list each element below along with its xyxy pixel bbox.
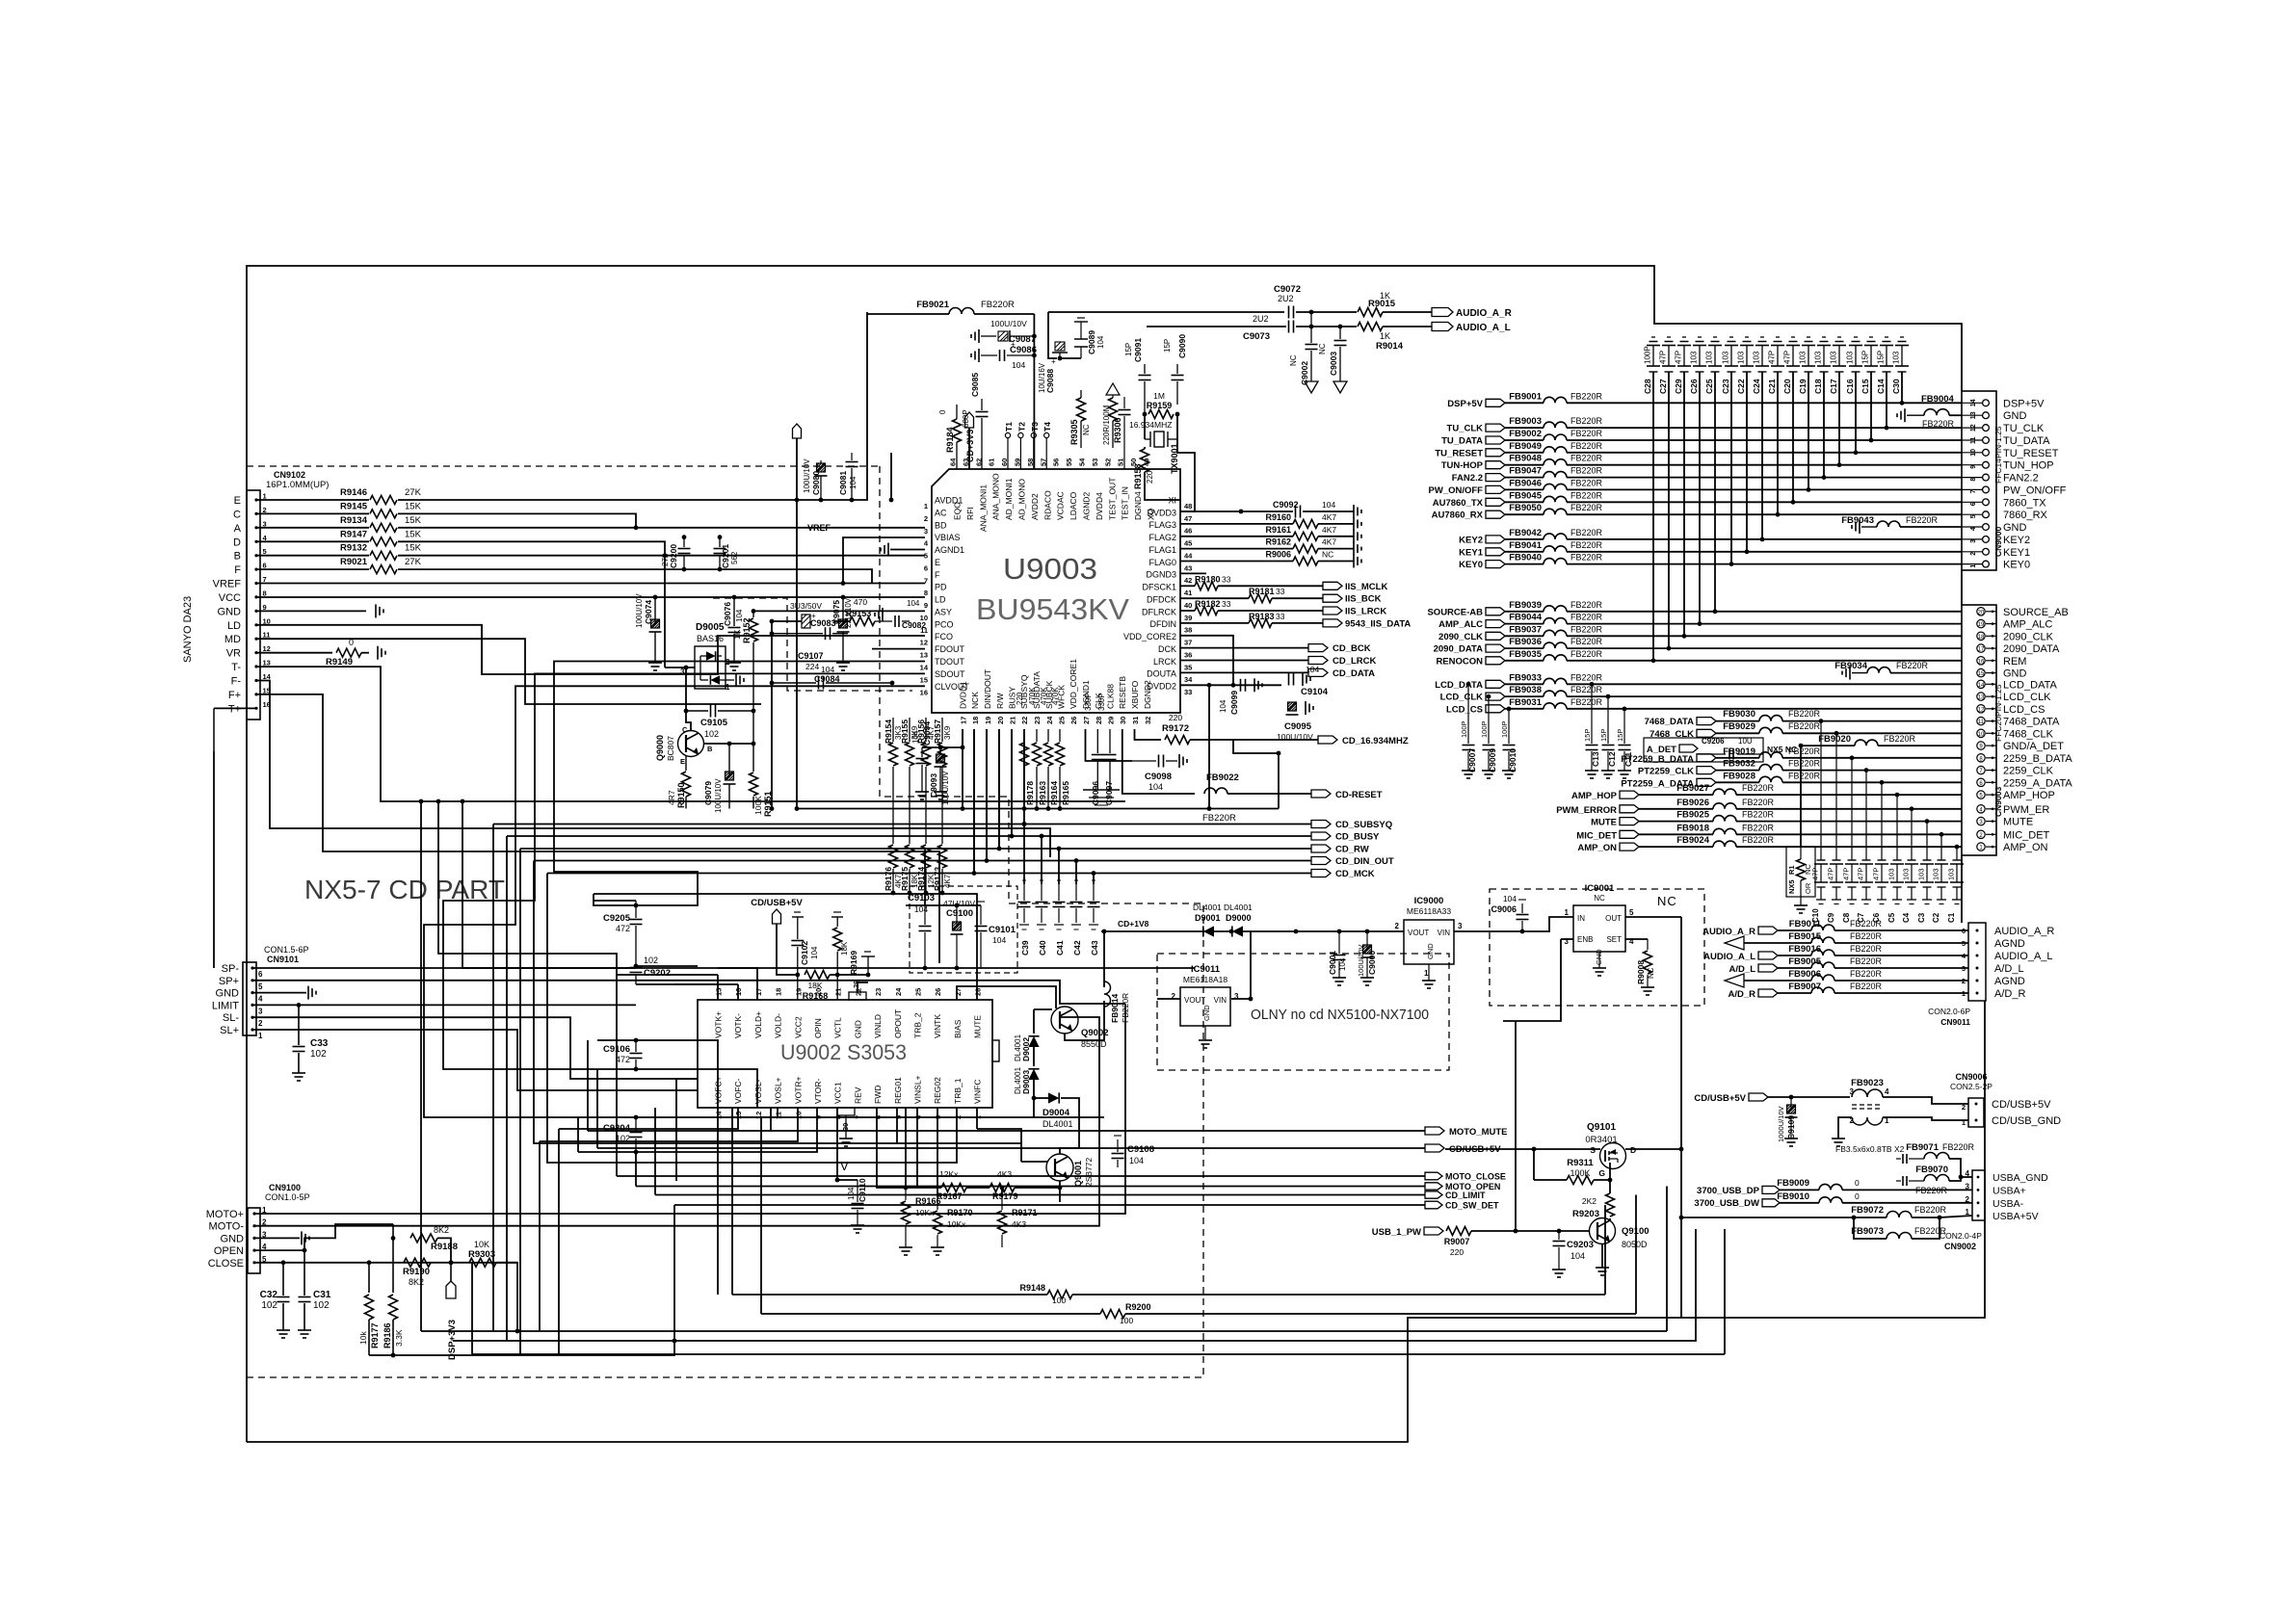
svg-text:C19: C19 bbox=[1798, 379, 1808, 394]
wire LIMIT bbox=[252, 1004, 636, 1006]
wire bbox=[761, 1313, 1100, 1315]
wire bbox=[1272, 622, 1323, 624]
svg-text:FB220R: FB220R bbox=[1570, 490, 1603, 500]
svg-text:33: 33 bbox=[1276, 612, 1285, 621]
svg-text:C13: C13 bbox=[1591, 751, 1600, 767]
wire IC9000 VIN bbox=[1454, 930, 1522, 932]
wire CD_DIN_OUT bbox=[987, 729, 1311, 861]
inductor FB9073 FB220R bbox=[1851, 1226, 1946, 1239]
svg-text:GND: GND bbox=[221, 1233, 245, 1244]
svg-text:47P: 47P bbox=[1842, 868, 1851, 880]
wire LD bbox=[256, 625, 925, 674]
connector CN9102 16P1.0MM(UP) bbox=[213, 470, 330, 720]
svg-text:100U/10V: 100U/10V bbox=[714, 778, 723, 813]
resistor R9162 4K7 bbox=[1265, 537, 1336, 554]
svg-text:MOTO+: MOTO+ bbox=[206, 1209, 244, 1220]
wire bbox=[1883, 1117, 1968, 1120]
svg-text:15P: 15P bbox=[1616, 729, 1624, 742]
wire bbox=[1015, 1187, 1060, 1189]
svg-text:TU_CLK: TU_CLK bbox=[1447, 424, 1484, 434]
svg-text:3: 3 bbox=[924, 527, 928, 536]
wire IC9001 IN bbox=[1522, 917, 1573, 931]
svg-text:DIN/DOUT: DIN/DOUT bbox=[983, 669, 992, 709]
svg-text:104: 104 bbox=[911, 730, 920, 744]
svg-text:104: 104 bbox=[1096, 335, 1105, 349]
svg-text:R9183: R9183 bbox=[1249, 612, 1275, 621]
svg-text:FB9009: FB9009 bbox=[1777, 1178, 1809, 1189]
svg-text:C3: C3 bbox=[1917, 912, 1926, 923]
svg-text:35: 35 bbox=[1184, 663, 1192, 671]
wire bbox=[1716, 720, 1759, 722]
svg-text:CD-RESET: CD-RESET bbox=[1335, 790, 1383, 800]
svg-text:VDD_CORE1: VDD_CORE1 bbox=[1069, 659, 1078, 709]
svg-text:1: 1 bbox=[1424, 969, 1429, 978]
svg-text:103: 103 bbox=[1690, 351, 1699, 364]
inductor FB9006 FB220R bbox=[1788, 969, 1882, 981]
stub CD_SW_DET bbox=[1425, 1201, 1499, 1211]
stub 7468_DATA bbox=[1645, 717, 1716, 727]
wire row DSP+5V bbox=[1567, 402, 1962, 404]
svg-text:C15: C15 bbox=[1861, 379, 1870, 394]
capacitor C19 103 bbox=[1798, 337, 1815, 394]
svg-text:100K: 100K bbox=[753, 796, 763, 815]
resistor R9179 4K3 bbox=[990, 1169, 1018, 1201]
resistor R9166 10Kx bbox=[899, 1188, 941, 1255]
svg-text:3: 3 bbox=[1458, 922, 1463, 930]
svg-text:FB220R: FB220R bbox=[1788, 771, 1821, 780]
svg-text:C9089: C9089 bbox=[1087, 330, 1096, 354]
svg-text:C25: C25 bbox=[1704, 379, 1714, 394]
capacitor C9076 104 bbox=[723, 597, 744, 670]
svg-text:FB9010: FB9010 bbox=[1777, 1191, 1809, 1202]
stub SOURCE-AB bbox=[1427, 607, 1505, 617]
svg-text:R9158: R9158 bbox=[1133, 463, 1143, 489]
svg-text:0: 0 bbox=[349, 638, 354, 647]
wire net A / AC bbox=[398, 527, 925, 529]
svg-text:FB9029: FB9029 bbox=[1723, 721, 1755, 732]
svg-text:R9190: R9190 bbox=[403, 1267, 430, 1277]
resistor R9006 NC bbox=[1265, 550, 1333, 566]
svg-text:R9200: R9200 bbox=[1125, 1302, 1151, 1312]
svg-text:DSP+3V3: DSP+3V3 bbox=[447, 1320, 458, 1360]
U9003 right pin names bbox=[1123, 496, 1193, 697]
svg-text:C9003: C9003 bbox=[1329, 352, 1338, 376]
wire SDOUT path bbox=[424, 686, 925, 1117]
stub AMP_ON bbox=[1577, 843, 1639, 853]
wire bbox=[578, 1108, 817, 1152]
svg-text:VR: VR bbox=[226, 648, 241, 660]
stub PT2259_CLK bbox=[1638, 767, 1716, 777]
svg-text:R9160: R9160 bbox=[1265, 512, 1291, 522]
inductor FB9044 FB220R bbox=[1509, 613, 1602, 624]
svg-text:18: 18 bbox=[1978, 635, 1985, 641]
wire pin18 col bbox=[973, 729, 975, 874]
wire b1 bbox=[462, 801, 636, 968]
svg-text:MUTE: MUTE bbox=[973, 1015, 983, 1038]
wire bbox=[777, 1116, 779, 1118]
svg-text:10K: 10K bbox=[474, 1240, 489, 1249]
transistor Q9000 BC807 bbox=[655, 725, 713, 766]
svg-text:8: 8 bbox=[263, 589, 267, 597]
svg-text:220: 220 bbox=[1169, 713, 1182, 722]
svg-text:AVDD2: AVDD2 bbox=[1030, 493, 1040, 520]
capacitor C4 103 bbox=[1902, 809, 1919, 923]
svg-text:GND/A_DET: GND/A_DET bbox=[2003, 741, 2064, 752]
svg-text:AMP_HOP: AMP_HOP bbox=[2003, 790, 2055, 801]
wire bbox=[1878, 745, 1962, 746]
svg-text:470: 470 bbox=[854, 597, 867, 607]
wire CD+3V3 column bbox=[796, 438, 798, 809]
svg-text:FB9014: FB9014 bbox=[1110, 993, 1120, 1023]
wire Q9100 emitter bbox=[1601, 1244, 1603, 1268]
stub DSP+5V bbox=[1447, 399, 1505, 409]
wire TRB1 bbox=[976, 1108, 978, 1129]
inductor FB9036 FB220R bbox=[1509, 637, 1602, 648]
wire ENB bbox=[1561, 938, 1573, 940]
svg-text:R9154: R9154 bbox=[884, 720, 893, 744]
capacitor C9009 100P bbox=[1480, 696, 1497, 778]
capacitor C42 bbox=[1070, 880, 1083, 955]
svg-text:2K2: 2K2 bbox=[1582, 1196, 1597, 1206]
wire to Q9001 bbox=[977, 1129, 1021, 1162]
inductor FB9050 FB220R bbox=[1509, 503, 1602, 514]
capacitor C9073 2U2 bbox=[1243, 314, 1294, 342]
stub RENOCON bbox=[1436, 656, 1505, 667]
wire bbox=[906, 904, 981, 906]
wire bbox=[1058, 849, 1060, 884]
inductor FB9045 FB220R bbox=[1509, 490, 1602, 502]
capacitor C9204 102 bbox=[603, 1117, 643, 1152]
svg-text:C9108: C9108 bbox=[1127, 1144, 1154, 1155]
svg-text:BD: BD bbox=[935, 520, 947, 530]
svg-text:8050D: 8050D bbox=[1622, 1240, 1648, 1249]
wire bbox=[1176, 414, 1178, 439]
stub IIS_LRCK bbox=[1323, 607, 1386, 617]
svg-text:OLNY no cd NX5100-NX7100: OLNY no cd NX5100-NX7100 bbox=[1251, 1007, 1429, 1023]
svg-text:14: 14 bbox=[920, 664, 929, 672]
svg-text:D9000: D9000 bbox=[1226, 913, 1252, 923]
svg-text:C9094: C9094 bbox=[922, 721, 932, 746]
svg-text:DL4001: DL4001 bbox=[1193, 903, 1222, 912]
dashed boundary top bbox=[247, 465, 880, 467]
wire cap C15 bbox=[1870, 372, 1872, 440]
inductor FB9019 FB220R bbox=[1723, 746, 1820, 758]
svg-text:103: 103 bbox=[1799, 351, 1808, 364]
svg-text:D: D bbox=[1630, 1145, 1636, 1155]
wire bbox=[1716, 781, 1759, 783]
capacitor C9001 104 bbox=[1328, 931, 1347, 985]
resistor R9172 220 bbox=[1162, 713, 1190, 745]
wire v568 bbox=[547, 874, 676, 1164]
wire row KEY0 bbox=[1567, 563, 1962, 565]
ground FB9023 bbox=[1832, 1138, 1845, 1139]
inductor FB9027 FB220R bbox=[1676, 783, 1774, 795]
inductor FB9007 FB220R bbox=[1788, 982, 1882, 993]
svg-text:36: 36 bbox=[1184, 650, 1192, 659]
resistor R9167 12Kx bbox=[937, 1169, 966, 1201]
svg-text:ME6118A33: ME6118A33 bbox=[1407, 906, 1451, 916]
op-amp U9003 BU9543KV DSP bbox=[932, 469, 1180, 713]
svg-text:5: 5 bbox=[924, 552, 928, 561]
svg-text:FB220R: FB220R bbox=[1570, 416, 1603, 426]
capacitor C43 bbox=[1088, 880, 1100, 955]
svg-text:FLAG1: FLAG1 bbox=[1148, 545, 1176, 555]
wire bbox=[1075, 861, 1077, 885]
svg-text:15: 15 bbox=[920, 675, 928, 684]
wire bbox=[1842, 1202, 1972, 1204]
wire bbox=[578, 1108, 778, 1117]
svg-text:100P: 100P bbox=[1460, 720, 1468, 738]
svg-text:C9091: C9091 bbox=[1133, 338, 1143, 362]
svg-text:12: 12 bbox=[920, 639, 928, 647]
wire Q9101 source row bbox=[1445, 1148, 1600, 1150]
inductor FB9004 FB220R bbox=[1897, 394, 1955, 429]
wire bbox=[890, 549, 925, 551]
svg-text:13: 13 bbox=[920, 651, 928, 660]
svg-text:FAN2.2: FAN2.2 bbox=[2003, 473, 2039, 484]
svg-text:R9168: R9168 bbox=[803, 991, 829, 1001]
svg-text:47P: 47P bbox=[1768, 351, 1777, 364]
svg-text:15K: 15K bbox=[405, 501, 422, 511]
wire bbox=[1780, 1202, 1819, 1204]
svg-text:10k: 10k bbox=[358, 1331, 368, 1345]
svg-text:FFC20PIN-1.25: FFC20PIN-1.25 bbox=[1993, 684, 2003, 742]
svg-text:DCK: DCK bbox=[1158, 644, 1176, 654]
svg-text:C9109: C9109 bbox=[1786, 1115, 1796, 1139]
svg-text:C41: C41 bbox=[1055, 940, 1065, 955]
svg-text:A/D_L: A/D_L bbox=[1994, 963, 2024, 975]
svg-text:R9153: R9153 bbox=[846, 609, 872, 618]
svg-text:R9177: R9177 bbox=[370, 1322, 380, 1348]
svg-text:470K: 470K bbox=[1028, 687, 1037, 705]
svg-text:AUDIO_A_L: AUDIO_A_L bbox=[1703, 952, 1755, 962]
wire bbox=[1716, 770, 1759, 772]
wire CD_RW bbox=[999, 729, 1311, 849]
svg-text:3: 3 bbox=[258, 1007, 263, 1015]
resistor R9190 8K2 bbox=[403, 1258, 431, 1287]
svg-text:FB9036: FB9036 bbox=[1509, 637, 1542, 647]
svg-text:1K: 1K bbox=[732, 629, 742, 640]
svg-text:VCC2: VCC2 bbox=[793, 1016, 803, 1038]
svg-text:6: 6 bbox=[258, 970, 263, 979]
svg-text:BAS16: BAS16 bbox=[697, 634, 724, 643]
wire v-cd_sw bbox=[1604, 1205, 1606, 1295]
stub CD_BUSY bbox=[1311, 832, 1380, 843]
svg-text:20: 20 bbox=[1978, 610, 1985, 615]
stub LCD_CS bbox=[1446, 704, 1505, 715]
wire pin22 col bbox=[1023, 729, 1025, 825]
svg-text:C4: C4 bbox=[1902, 912, 1911, 923]
svg-text:LIMIT: LIMIT bbox=[212, 1000, 239, 1011]
resistor R9169 18K bbox=[831, 912, 858, 1000]
svg-text:VTOR-: VTOR- bbox=[813, 1079, 823, 1104]
wire bbox=[636, 965, 698, 967]
svg-text:FB220R: FB220R bbox=[1884, 734, 1916, 744]
svg-text:CD_16.934MHZ: CD_16.934MHZ bbox=[1342, 736, 1409, 746]
wire bbox=[617, 974, 718, 976]
wire bbox=[917, 1187, 941, 1189]
wire bbox=[1231, 998, 1251, 1000]
svg-text:220: 220 bbox=[1016, 692, 1024, 705]
gnd arrow AGND bbox=[1725, 936, 1744, 950]
capacitor C9093 100U/10V bbox=[929, 747, 950, 805]
wire bottom R join bbox=[369, 1341, 674, 1355]
svg-text:2090_CLK: 2090_CLK bbox=[2003, 631, 2054, 642]
wire pin19 col bbox=[986, 729, 988, 861]
svg-text:104: 104 bbox=[1570, 1251, 1585, 1261]
svg-text:LD: LD bbox=[227, 620, 241, 632]
svg-text:R1: R1 bbox=[1787, 865, 1796, 875]
svg-text:Q9001: Q9001 bbox=[1073, 1161, 1083, 1187]
svg-text:FB9047: FB9047 bbox=[1509, 466, 1542, 477]
stub MOTO_OPEN bbox=[1425, 1182, 1500, 1191]
svg-text:RESETB: RESETB bbox=[1118, 676, 1127, 709]
svg-text:24: 24 bbox=[894, 987, 903, 996]
wire bbox=[635, 1152, 637, 1187]
wire v-moto_open bbox=[1666, 1187, 1668, 1332]
svg-text:R9145: R9145 bbox=[340, 501, 368, 511]
connector CN9011 CON2.0-6P bbox=[1928, 923, 2054, 1027]
wire bbox=[675, 1162, 677, 1164]
svg-text:1K: 1K bbox=[1380, 331, 1390, 341]
wire cap C19 bbox=[1808, 372, 1809, 489]
svg-text:FB220R: FB220R bbox=[1788, 709, 1821, 719]
svg-text:ENB: ENB bbox=[1577, 935, 1593, 944]
svg-text:3700_USB_DW: 3700_USB_DW bbox=[1694, 1198, 1759, 1209]
svg-text:SL-: SL- bbox=[223, 1012, 239, 1024]
capacitor C10 47P bbox=[1811, 721, 1829, 923]
svg-text:R9007: R9007 bbox=[1444, 1237, 1470, 1246]
svg-text:GND: GND bbox=[218, 606, 242, 617]
svg-text:15: 15 bbox=[715, 988, 724, 996]
svg-text:FB9030: FB9030 bbox=[1723, 709, 1755, 720]
svg-text:470K: 470K bbox=[1040, 687, 1048, 705]
wire bbox=[1041, 836, 1042, 884]
svg-text:CON2.0-6P: CON2.0-6P bbox=[1928, 1007, 1970, 1016]
ground AGND1 bbox=[881, 543, 888, 557]
svg-text:VOTR+: VOTR+ bbox=[793, 1076, 803, 1104]
svg-text:100U/10V: 100U/10V bbox=[941, 771, 950, 805]
svg-text:TDOUT: TDOUT bbox=[935, 657, 964, 667]
svg-text:FB220R: FB220R bbox=[1570, 624, 1603, 634]
svg-text:LCD_CLK: LCD_CLK bbox=[2003, 692, 2051, 703]
capacitor C9082 104 bbox=[875, 599, 926, 630]
svg-text:15P: 15P bbox=[1877, 351, 1886, 364]
stub PT2259_A_DATA bbox=[1621, 778, 1716, 789]
svg-text:AGND1: AGND1 bbox=[935, 545, 964, 555]
capacitor C12 15P bbox=[1599, 696, 1617, 778]
svg-text:11: 11 bbox=[1978, 720, 1985, 725]
svg-text:100P: 100P bbox=[1480, 720, 1489, 738]
wire bbox=[1949, 1177, 1961, 1181]
svg-text:VINTK: VINTK bbox=[933, 1014, 942, 1038]
svg-text:FB9041: FB9041 bbox=[1509, 540, 1543, 551]
wire net B / BD bbox=[398, 555, 925, 557]
svg-text:FB9026: FB9026 bbox=[1676, 798, 1709, 808]
svg-text:29: 29 bbox=[1107, 717, 1116, 724]
svg-text:DFDCK: DFDCK bbox=[1147, 595, 1176, 605]
stub AUDIO_A_R bbox=[1432, 308, 1513, 320]
svg-text:1: 1 bbox=[726, 683, 730, 692]
svg-text:T1: T1 bbox=[1004, 422, 1014, 432]
resistor R9147 bbox=[340, 529, 422, 546]
svg-text:FB220R: FB220R bbox=[1788, 721, 1821, 731]
svg-text:44: 44 bbox=[1184, 552, 1193, 561]
wire bbox=[1834, 992, 1968, 994]
wire MOTO- bbox=[254, 1197, 1099, 1226]
wire bbox=[732, 1294, 1047, 1296]
svg-text:17: 17 bbox=[1978, 647, 1985, 653]
wire CD_BUSY bbox=[1012, 729, 1311, 836]
svg-text:TU_DATA: TU_DATA bbox=[1441, 436, 1483, 447]
svg-text:FCO: FCO bbox=[935, 632, 953, 641]
resistor R9186 3.3K bbox=[383, 1224, 404, 1355]
svg-text:F: F bbox=[234, 564, 241, 576]
svg-text:100U/10V: 100U/10V bbox=[1357, 945, 1365, 977]
svg-text:FB220R: FB220R bbox=[1570, 637, 1603, 646]
svg-text:AD_MONI1: AD_MONI1 bbox=[1004, 478, 1014, 520]
svg-text:FB220R: FB220R bbox=[1570, 540, 1603, 550]
inductor FB9043 FB220R bbox=[1841, 515, 1938, 534]
svg-text:CD_DIN_OUT: CD_DIN_OUT bbox=[1335, 856, 1394, 867]
resistor R9146 bbox=[340, 487, 422, 505]
wire bbox=[1782, 781, 1962, 783]
wire bbox=[1227, 793, 1311, 795]
wire bbox=[1034, 1097, 1048, 1099]
resistor R9150 4R7 bbox=[667, 756, 691, 809]
wire bbox=[1780, 1189, 1819, 1191]
svg-text:1: 1 bbox=[1565, 908, 1570, 917]
svg-text:T2: T2 bbox=[1016, 422, 1026, 432]
capacitor C9102 104 bbox=[791, 912, 819, 1000]
svg-text:4: 4 bbox=[1966, 1169, 1970, 1178]
svg-text:CON2.5-2P: CON2.5-2P bbox=[1950, 1082, 1993, 1091]
inductor FB9071 FB220R bbox=[1896, 1142, 1975, 1164]
svg-text:C12: C12 bbox=[1607, 751, 1617, 767]
svg-text:0: 0 bbox=[1855, 1178, 1860, 1188]
svg-text:FB9001: FB9001 bbox=[1509, 391, 1543, 402]
svg-text:OUT: OUT bbox=[1605, 914, 1622, 923]
wire cap C20 bbox=[1792, 372, 1794, 502]
svg-text:100U/10V: 100U/10V bbox=[803, 458, 811, 493]
wire bbox=[1883, 1097, 1968, 1104]
svg-text:7860_RX: 7860_RX bbox=[2003, 510, 2048, 521]
svg-text:MUTE: MUTE bbox=[1591, 818, 1617, 828]
resistor R9164 470K bbox=[1040, 687, 1059, 809]
svg-text:FB9024: FB9024 bbox=[1676, 835, 1710, 846]
svg-text:LCD_DATA: LCD_DATA bbox=[2003, 679, 2057, 691]
wire VDD_CORE2 bbox=[1180, 636, 1233, 686]
wire Q9000 base bbox=[703, 743, 753, 745]
capacitor C13 15P bbox=[1583, 684, 1600, 778]
inductor FB9070 FB220R bbox=[1896, 1165, 1949, 1195]
svg-text:47P: 47P bbox=[1811, 868, 1820, 880]
svg-text:FB220R: FB220R bbox=[1742, 798, 1775, 807]
transformer FB9023 FB3.5x6x0.8TB X2 bbox=[1835, 1078, 1905, 1154]
svg-text:16P1.0MM(UP): 16P1.0MM(UP) bbox=[266, 480, 329, 490]
svg-text:FB9048: FB9048 bbox=[1509, 454, 1542, 464]
wire F- bbox=[256, 681, 1050, 858]
svg-text:10Kx: 10Kx bbox=[947, 1219, 966, 1229]
svg-text:FB9070: FB9070 bbox=[1915, 1165, 1948, 1175]
wire row TU_DATA bbox=[1567, 439, 1962, 441]
capacitor C9003 NC bbox=[1318, 327, 1347, 393]
wire bbox=[1736, 821, 1962, 823]
svg-text:FB220R: FB220R bbox=[1570, 454, 1603, 463]
svg-text:R9164: R9164 bbox=[1049, 781, 1059, 805]
svg-text:C17: C17 bbox=[1829, 379, 1838, 394]
wire bbox=[777, 924, 798, 975]
